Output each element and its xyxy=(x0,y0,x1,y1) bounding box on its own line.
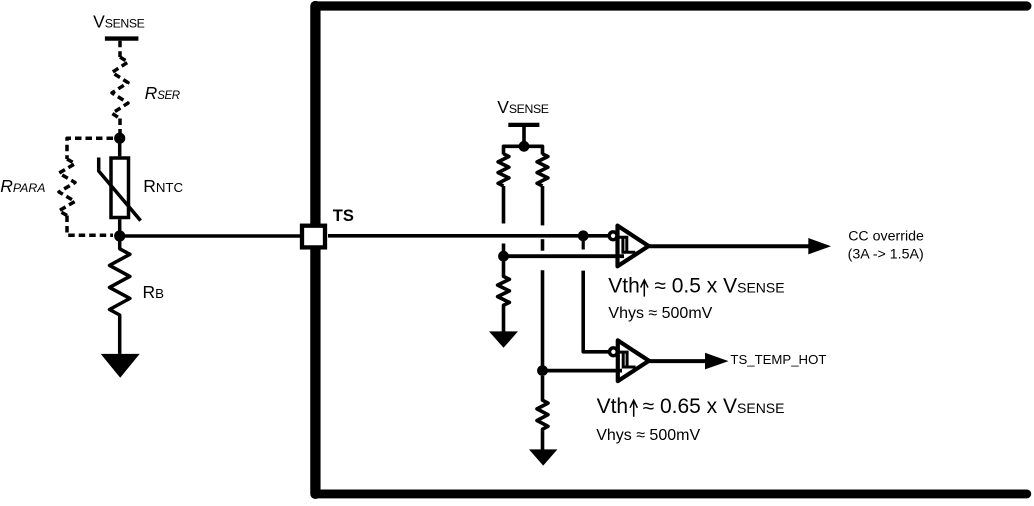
comparator U1 hysteresis mark xyxy=(618,237,635,252)
IC boundary box (open right side) xyxy=(315,6,1026,494)
wire comparator 1 output xyxy=(649,244,812,248)
node F (comparator 2 reference node) xyxy=(537,365,548,376)
wire comparator 1 lower input xyxy=(504,254,625,258)
pin TS (square) xyxy=(302,226,325,248)
svg-text:RNTC: RNTC xyxy=(143,176,183,196)
rising-edge arrow glyph 2 xyxy=(630,400,637,417)
wire node E stub down (break at ref line) xyxy=(582,236,585,250)
wire TS node to pin xyxy=(125,234,301,238)
svg-text:≈ 0.65 x VSENSE: ≈ 0.65 x VSENSE xyxy=(643,395,785,418)
wire node E to comparator 2 bubble xyxy=(583,271,608,352)
svg-text:Vhys ≈ 500mV: Vhys ≈ 500mV xyxy=(596,427,700,444)
svg-text:Vth: Vth xyxy=(597,395,629,418)
node B (TS net junction) xyxy=(114,230,125,241)
comparator U2 input bubble xyxy=(610,348,618,356)
arrowhead CC override output xyxy=(808,238,831,254)
svg-text:TS: TS xyxy=(333,207,354,225)
resistor divider right upper xyxy=(537,154,548,186)
thermistor RNTC body xyxy=(111,138,129,236)
rising-edge arrow glyph 1 xyxy=(641,280,648,297)
svg-text:CC override: CC override xyxy=(848,229,924,245)
resistor RSER (dashed zigzag) xyxy=(112,57,128,119)
ground (external) xyxy=(101,354,140,378)
svg-text:RSER: RSER xyxy=(145,83,180,103)
svg-text:Vth: Vth xyxy=(608,275,640,298)
comparator U1 input bubble xyxy=(609,232,617,240)
wire dashed stub RSER to node xyxy=(118,119,122,135)
wire bar to divider node xyxy=(522,127,526,146)
arrowhead TS_TEMP_HOT output xyxy=(705,353,729,370)
comparator U2 hysteresis mark xyxy=(619,352,636,367)
wire comparator 2 output xyxy=(649,359,708,363)
node A (RSER / RNTC / RPARA junction) xyxy=(114,133,125,144)
wire comparator 2 lower input xyxy=(543,369,623,373)
node D (comparator 1 reference node) xyxy=(498,251,509,262)
svg-text:VSENSE: VSENSE xyxy=(93,12,145,32)
svg-text:VSENSE: VSENSE xyxy=(497,97,549,117)
wire divider branch xyxy=(504,146,543,154)
wire right divider lead (breaks at crossings) xyxy=(541,186,545,225)
svg-text:TS_TEMP_HOT: TS_TEMP_HOT xyxy=(730,352,826,367)
resistor below node F xyxy=(537,376,548,450)
svg-text:Vhys ≈ 500mV: Vhys ≈ 500mV xyxy=(608,305,712,322)
wire dashed stub from VSENSE bar xyxy=(118,41,122,57)
svg-text:RB: RB xyxy=(143,282,165,302)
comparator U1 triangle xyxy=(618,226,649,267)
svg-text:RPARA: RPARA xyxy=(0,176,45,196)
node C (divider top) xyxy=(519,141,530,152)
supply rail bar VSENSE xyxy=(105,36,138,40)
ground (internal, comparator 2 ref) xyxy=(529,449,557,465)
resistor divider left upper xyxy=(498,154,509,186)
comparator U2 triangle xyxy=(618,340,649,381)
ground (internal, comparator 1 ref) xyxy=(489,331,518,347)
svg-text:≈ 0.5 x VSENSE: ≈ 0.5 x VSENSE xyxy=(654,275,784,298)
wire left divider lead (breaks at TS line) xyxy=(502,186,506,224)
thermistor RNTC diagonal stroke xyxy=(99,158,141,221)
resistor below node D xyxy=(498,261,510,332)
supply rail bar VSENSE internal xyxy=(508,123,539,127)
node E (TS line tap to comparator 2) xyxy=(578,230,589,241)
wire TS internal to comparator 1 xyxy=(328,234,608,238)
resistor RPARA (dashed, parallel loop) xyxy=(59,138,113,235)
resistor RB xyxy=(110,236,130,354)
svg-text:(3A -> 1.5A): (3A -> 1.5A) xyxy=(848,247,924,263)
